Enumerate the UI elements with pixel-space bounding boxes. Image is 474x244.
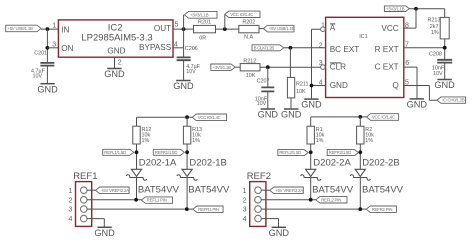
wire REF1 pin 2 row xyxy=(87,199,141,201)
capacitor C207 10nF 10V xyxy=(267,67,269,87)
svg-text:D202-2A: D202-2A xyxy=(313,157,351,168)
wire ON node to IC2 pin 3 xyxy=(47,47,58,49)
resistor R213 2k7 1% xyxy=(440,17,449,39)
wire REF2 pin 4 to ground xyxy=(261,219,278,228)
svg-text:1%: 1% xyxy=(365,138,373,144)
net flag +3V3 above OUT node xyxy=(184,11,217,18)
svg-text:GND: GND xyxy=(330,81,348,90)
net flag REFL2 xyxy=(278,150,308,156)
wire R202 to +5V USB flag xyxy=(259,28,263,30)
svg-text:10V: 10V xyxy=(433,71,443,77)
svg-text:GND: GND xyxy=(173,81,194,91)
IC2 name and value labels xyxy=(81,23,152,44)
resistor R13 10k 1% xyxy=(183,126,190,144)
svg-text:BAT54VV: BAT54VV xyxy=(312,184,354,195)
wire IC1 pin 6 C EXT to ground xyxy=(404,67,417,99)
connector REF1 pin numbers xyxy=(68,188,72,223)
svg-text:BAT54VV: BAT54VV xyxy=(188,184,230,195)
wire vertical up to VCC IO flag xyxy=(224,14,226,29)
IC1 pin 1 inversion bubble xyxy=(321,27,326,32)
ground below R211 xyxy=(281,109,302,120)
ground below IC1 pin 4 xyxy=(301,99,322,110)
svg-text:IO CH0/1.2B: IO CH0/1.2B xyxy=(442,98,464,103)
node junction REF1 pin3 diode xyxy=(185,207,189,211)
wire B_CLK to IC1 pin 2 xyxy=(284,47,326,49)
wire REF1 pin 4 to ground xyxy=(87,219,104,228)
node junction vcc rail xyxy=(414,7,418,11)
wire D202-1B to REF1 pin3 row xyxy=(186,178,188,210)
svg-text:ON: ON xyxy=(61,44,73,53)
net flag REFL2_PIN xyxy=(316,197,347,203)
ground below C EXT xyxy=(407,99,428,110)
diode D202-2B BAT54VV half xyxy=(350,169,370,180)
svg-text:0R: 0R xyxy=(199,35,206,41)
net flag VCC_IO above R201-R202 junction xyxy=(225,11,260,17)
svg-text:1%: 1% xyxy=(431,30,439,36)
resistor R212 10K xyxy=(240,64,260,71)
svg-text:GND: GND xyxy=(107,47,125,56)
svg-text:1: 1 xyxy=(52,23,56,30)
connector REF2 pin numbers xyxy=(243,188,247,223)
svg-text:Q: Q xyxy=(392,81,398,90)
svg-text:A: A xyxy=(330,23,336,32)
svg-text:C207: C207 xyxy=(257,79,270,85)
svg-text:REFL2/1.5D: REFL2/1.5D xyxy=(279,150,301,155)
svg-text:REFR2 PIN: REFR2 PIN xyxy=(372,207,393,212)
svg-text:R201: R201 xyxy=(198,20,211,26)
wire IC1 pin 5 Q to IO_CH0 flag xyxy=(404,86,437,101)
wire +5V_USB flag to IC2 pin 1 IN xyxy=(41,28,58,30)
wire D202-2A to REF2 pin2 row xyxy=(310,178,312,200)
net flag REFL1_PIN xyxy=(141,197,172,203)
net flag REFR1_PIN xyxy=(193,206,223,212)
wire rail down to R2 xyxy=(359,117,361,126)
wire rail down to R12 xyxy=(136,117,138,126)
net flag +5V_VREF at REF1 pin 1 xyxy=(96,187,130,194)
net flag B_CLK xyxy=(252,45,284,51)
wire vertical IN node down to C201 xyxy=(46,29,48,63)
svg-text:2: 2 xyxy=(118,60,122,67)
resistor R201 0R xyxy=(194,25,216,32)
svg-text:REFL2 PIN: REFL2 PIN xyxy=(321,197,341,202)
svg-text:VCC IO/1.4C: VCC IO/1.4C xyxy=(230,12,253,17)
wire REF2 pin 3 row xyxy=(261,208,366,210)
ground below IC2 pin 2 xyxy=(104,69,125,80)
wire IC1 pin 7 R EXT xyxy=(404,47,445,49)
svg-text:R202: R202 xyxy=(242,19,255,25)
wire R213 to R EXT node xyxy=(444,39,446,59)
IC1 pin 3 inversion bubble xyxy=(321,65,326,70)
ground below REF2 pin 4 xyxy=(269,227,290,238)
node junction R212 to C207 xyxy=(266,65,270,69)
connector REF1 pin circles xyxy=(81,187,88,222)
svg-text:REF2: REF2 xyxy=(247,171,271,182)
svg-text:4: 4 xyxy=(243,216,247,223)
node junction REFL1 xyxy=(135,150,139,154)
svg-text:R212: R212 xyxy=(243,58,256,64)
IC1 pin name CLR with overline xyxy=(330,62,346,71)
svg-text:2: 2 xyxy=(243,197,247,204)
svg-text:10K: 10K xyxy=(246,73,256,79)
svg-text:VCC IO/1.4C: VCC IO/1.4C xyxy=(198,115,221,120)
svg-text:GND: GND xyxy=(37,84,58,94)
svg-text:C EXT: C EXT xyxy=(375,62,399,71)
svg-text:REFR1/1.5D: REFR1/1.5D xyxy=(155,150,177,155)
svg-text:+5V USB/1.1B: +5V USB/1.1B xyxy=(269,26,295,31)
svg-text:IN: IN xyxy=(61,25,69,34)
svg-text:3: 3 xyxy=(52,41,56,48)
capacitor C206 4.7uF 10V xyxy=(177,57,191,60)
svg-text:4: 4 xyxy=(68,216,72,223)
net flag REFR2 xyxy=(327,150,358,156)
node junction REFL2 xyxy=(309,150,313,154)
node junction REF1 pin2 diode xyxy=(134,198,138,202)
op-amp regulator IC2 LP2985AIM5-3.3 box xyxy=(58,20,173,57)
net flag REFR2_PIN xyxy=(366,206,396,212)
svg-text:CLR: CLR xyxy=(330,62,346,71)
svg-text:N.A: N.A xyxy=(244,34,253,40)
wire R12 to node REFL1 xyxy=(136,144,138,169)
svg-text:1%: 1% xyxy=(142,138,150,144)
net flag +5V_VREF at REF2 pin 1 xyxy=(270,187,304,194)
svg-text:10K: 10K xyxy=(296,89,306,95)
svg-text:D202-2B: D202-2B xyxy=(362,157,400,168)
wire junction down to IC1 pin 8 VCC xyxy=(404,9,416,28)
svg-text:VCC IO/1.4C: VCC IO/1.4C xyxy=(372,115,395,120)
svg-text:C206: C206 xyxy=(185,46,198,52)
node junction rail to R2 xyxy=(358,115,362,119)
svg-text:BAT54VV: BAT54VV xyxy=(138,184,180,195)
IC2 pin numbers 1 3 5 4 2 xyxy=(52,22,178,67)
svg-text:GND: GND xyxy=(281,110,302,120)
svg-text:GND: GND xyxy=(407,100,428,110)
node junction R EXT xyxy=(443,46,447,50)
svg-text:D202-1A: D202-1A xyxy=(139,157,177,168)
wire IC2 pin 2 GND stub xyxy=(114,57,116,68)
net flag +5V_USB at IC2 IN xyxy=(6,25,41,32)
svg-text:REFL1 PIN: REFL1 PIN xyxy=(147,198,167,203)
node junction B_CLK to R211 xyxy=(289,46,293,50)
wire IC1 pin 1 A to ground rail xyxy=(312,29,321,99)
svg-text:+5V VREF/2.2A: +5V VREF/2.2A xyxy=(275,188,303,193)
svg-text:+5V USB/1.1B: +5V USB/1.1B xyxy=(7,26,33,31)
wire IC2 pin 4 BYPASS stub xyxy=(173,47,184,49)
svg-text:C208: C208 xyxy=(429,51,442,57)
wire junction down to R211 xyxy=(289,48,291,78)
svg-text:OUT: OUT xyxy=(154,24,171,33)
svg-text:IC1: IC1 xyxy=(359,34,367,40)
svg-text:GND: GND xyxy=(269,228,290,238)
wire D202-2B to REF2 pin3 row xyxy=(359,178,361,210)
svg-text:3: 3 xyxy=(243,207,247,214)
net flag REFR1 xyxy=(153,149,184,155)
svg-text:BAT54VV: BAT54VV xyxy=(362,184,404,195)
connector REF2 box xyxy=(250,182,266,227)
svg-text:R211: R211 xyxy=(296,82,309,88)
net flag VCC_IO on left rail xyxy=(192,114,226,121)
svg-text:REFL1/1.5D: REFL1/1.5D xyxy=(104,150,126,155)
wire flag to R212 xyxy=(235,66,240,68)
wire rail down to R13 xyxy=(186,117,188,126)
wire C201 to ground xyxy=(46,66,48,84)
wire REF2 pin 1 to +5V VREF flag xyxy=(261,189,270,191)
svg-text:+5V VREF/2.2A: +5V VREF/2.2A xyxy=(101,188,129,193)
net flag +3V3 at R212 xyxy=(211,64,235,70)
svg-text:10V: 10V xyxy=(257,101,267,107)
wire VCC IO rail right block xyxy=(311,116,367,118)
net flag REFL1 left xyxy=(103,149,134,155)
svg-text:GND: GND xyxy=(434,80,455,90)
ground below C206 xyxy=(173,81,194,92)
wire REF1 pin 3 row xyxy=(87,208,193,210)
svg-text:GND: GND xyxy=(258,110,279,120)
wire R211 to ground xyxy=(290,98,292,109)
connector REF2 pin circles xyxy=(255,187,262,222)
wire VCC IO rail left block xyxy=(137,116,193,118)
wire REF2 pin 2 row xyxy=(261,199,316,201)
wire rail down to R1 xyxy=(310,117,312,126)
svg-text:BC EXT: BC EXT xyxy=(330,45,360,54)
IC1 pin numbers xyxy=(319,22,410,86)
svg-text:2: 2 xyxy=(319,43,323,50)
svg-text:5: 5 xyxy=(174,22,178,29)
svg-text:2: 2 xyxy=(68,197,72,204)
net flag +3V3 top right xyxy=(384,6,409,12)
svg-text:BYPASS: BYPASS xyxy=(139,43,172,52)
wire R13 to node REFR1 xyxy=(186,144,188,169)
ground below REF1 pin 4 xyxy=(94,227,115,238)
svg-text:C201: C201 xyxy=(34,51,47,57)
svg-text:GND: GND xyxy=(104,69,125,79)
node junction pin4 gnd xyxy=(310,84,314,88)
svg-text:10V: 10V xyxy=(33,73,43,79)
svg-text:VCC: VCC xyxy=(381,24,398,33)
wire C206 to ground xyxy=(183,60,185,80)
svg-text:+3V3/1.1B: +3V3/1.1B xyxy=(386,6,405,11)
net flag VCC_IO on right rail xyxy=(367,114,399,121)
node junction REF2 pin3 diode xyxy=(358,207,362,211)
node junction VCC_IO xyxy=(223,27,227,31)
resistor R202 N.A xyxy=(239,25,259,32)
resistor R2 10k 1% xyxy=(357,126,364,144)
svg-text:REFR2/1.5D: REFR2/1.5D xyxy=(329,150,351,155)
ground below C201 xyxy=(37,84,58,95)
svg-text:B CLK/1.2B: B CLK/1.2B xyxy=(254,45,275,50)
diode D202-2A BAT54VV half xyxy=(301,169,321,180)
IC1 pin name A with overline xyxy=(330,23,336,32)
svg-text:+3V3/1.1B: +3V3/1.1B xyxy=(212,65,231,70)
wire R212 to IC1 pin 3 CLR xyxy=(260,66,321,68)
svg-text:1%: 1% xyxy=(316,138,324,144)
wire R1 to node REFL2 xyxy=(310,144,312,169)
resistor R1 10k 1% xyxy=(307,126,314,144)
ground below C208 xyxy=(434,80,455,91)
node junction at IC2 IN xyxy=(46,27,50,31)
wire D202-1A to REF1 pin2 row xyxy=(136,178,138,200)
svg-text:6: 6 xyxy=(405,60,409,67)
node junction REF2 pin2 diode xyxy=(309,198,313,202)
wire IC2 OUT to R201 xyxy=(173,28,194,30)
svg-text:+3V3/1.1B: +3V3/1.1B xyxy=(190,12,209,17)
connector REF1 box xyxy=(76,182,92,227)
resistor R211 10K xyxy=(287,77,294,98)
wire C208 to ground xyxy=(444,63,446,80)
svg-text:LP2985AIM5-3.3: LP2985AIM5-3.3 xyxy=(81,32,152,43)
svg-text:GND: GND xyxy=(94,228,115,238)
node junction REFR1 xyxy=(185,150,189,154)
wire R2 to node REFR2 xyxy=(359,144,361,169)
diode D202-1B BAT54VV half xyxy=(177,169,197,180)
IC1 monostable box xyxy=(326,17,404,97)
net flag +5V_USB right of R202 xyxy=(263,25,294,32)
svg-text:REFR1 PIN: REFR1 PIN xyxy=(198,207,219,212)
svg-text:10V: 10V xyxy=(186,69,196,75)
svg-text:1%: 1% xyxy=(192,138,200,144)
wire IC1 pin 4 GND stub xyxy=(312,85,326,87)
svg-text:1: 1 xyxy=(243,188,247,195)
node junction at IC2 ON xyxy=(46,46,50,50)
resistor R12 10k 1% xyxy=(133,126,140,144)
node junction rail to R13 xyxy=(185,115,189,119)
ground below C207 xyxy=(258,109,279,120)
svg-text:GND: GND xyxy=(301,100,322,110)
svg-text:R EXT: R EXT xyxy=(375,45,399,54)
svg-text:REF1: REF1 xyxy=(73,171,97,182)
net flag IO_CH0 at Q output xyxy=(437,97,466,103)
wire vertical OUT node up to +3V3 flag and down to C206 xyxy=(183,15,185,58)
wire C207 to ground xyxy=(267,91,269,109)
capacitor C201 4.7uF 10V xyxy=(40,63,54,66)
node junction at IC2 OUT xyxy=(182,27,186,31)
diode D202-1A BAT54VV half xyxy=(126,169,146,180)
wire R201 to R202 xyxy=(216,28,239,30)
svg-text:R213: R213 xyxy=(428,18,441,24)
capacitor C208 10nF 10V xyxy=(437,60,452,63)
svg-text:D202-1B: D202-1B xyxy=(189,157,227,168)
svg-text:1: 1 xyxy=(68,188,72,195)
IC2 pin names xyxy=(61,24,172,55)
svg-text:3: 3 xyxy=(68,207,72,214)
node junction REFR2 xyxy=(358,150,362,154)
wire +3V3 rail to R213 xyxy=(409,9,444,18)
wire REF1 pin 1 to +5V VREF flag xyxy=(87,189,96,191)
